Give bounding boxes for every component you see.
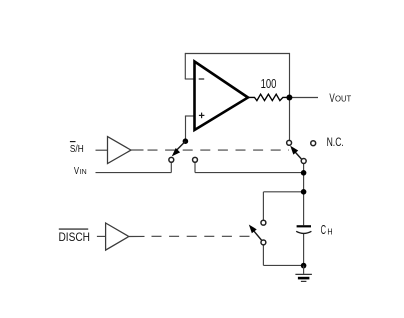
wire crossbar node B [195, 172, 304, 174]
switch S1 contact right [193, 157, 198, 162]
wire S2 lower riser [303, 164, 305, 173]
label VOUT [329, 93, 351, 105]
svg-text:DISCH: DISCH [59, 230, 91, 244]
ground [295, 274, 312, 281]
switch S3 arrowhead [249, 225, 256, 233]
wire capacitor top lead [303, 192, 305, 225]
switch S2 contact bottom [301, 159, 306, 164]
wire feedback left [184, 53, 186, 79]
switch S1 contact left [169, 157, 174, 162]
wire S3 upper riser [262, 192, 264, 221]
resistor R 100 [248, 94, 287, 100]
node C junction dot [301, 189, 307, 195]
wire S3 lower riser [262, 245, 264, 266]
ground lead [303, 266, 305, 274]
switch S3 arm [254, 231, 262, 241]
label VIN [74, 166, 87, 177]
wire inverting input [185, 78, 195, 80]
switch S3 contact top [261, 220, 266, 225]
switch S1 arm [177, 141, 185, 150]
label DISCH overline [59, 228, 88, 230]
N.C. terminal circle [311, 141, 316, 146]
wire VIN [96, 172, 172, 174]
op-amp minus pin [199, 78, 205, 80]
switch S3 contact bottom [261, 240, 266, 245]
wire DISCH label lead [97, 235, 106, 237]
switch S2 contact top [287, 140, 292, 145]
svg-text:OUT: OUT [335, 94, 351, 104]
svg-text:100: 100 [261, 77, 277, 91]
wire S1 left riser [170, 162, 172, 172]
node B junction dot [301, 170, 307, 176]
svg-text:C: C [321, 223, 326, 237]
svg-text:V: V [74, 166, 79, 177]
wire noninverting riser [185, 116, 187, 141]
svg-text:IN: IN [80, 169, 87, 176]
wire node C left [264, 191, 304, 193]
capacitor CH bottom plate [296, 231, 311, 233]
switch S1 arrowhead [172, 149, 179, 156]
wire S1 right riser [194, 162, 196, 172]
wire control dashed S/H [148, 149, 290, 151]
wire output to VOUT [290, 97, 318, 99]
wire S2 upper [289, 98, 291, 141]
svg-text:N.C.: N.C. [327, 135, 344, 149]
wire bottom to ground node [263, 264, 303, 266]
capacitor CH top plate [297, 225, 311, 227]
switch S1 pivot junction dot [183, 138, 189, 144]
wire S/H label lead [96, 149, 108, 151]
wire node B to node C [303, 173, 305, 192]
wire buffer A2 output lead [129, 235, 145, 237]
op-amp plus pin [199, 113, 205, 119]
label CH [321, 223, 333, 237]
wire feedback right [289, 53, 291, 98]
node A junction dot [286, 95, 292, 101]
wire feedback top [185, 53, 289, 55]
ground node junction dot [301, 263, 307, 269]
switch S2 arm [295, 152, 302, 160]
buffer A2 DISCH [106, 223, 129, 250]
label S/H overline [70, 141, 76, 143]
switch S2 arrowhead [291, 146, 298, 154]
wire capacitor bottom lead [303, 234, 305, 266]
svg-text:S/H: S/H [70, 143, 84, 155]
wire control dashed DISCH [152, 235, 253, 237]
op-amp U1 [195, 62, 249, 131]
wire noninverting input [185, 115, 195, 117]
svg-text:H: H [327, 227, 332, 236]
buffer A1 S/H [108, 137, 132, 164]
wire buffer A1 output lead [131, 149, 144, 151]
